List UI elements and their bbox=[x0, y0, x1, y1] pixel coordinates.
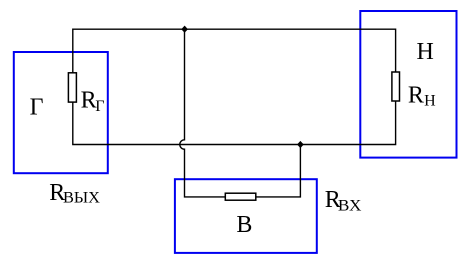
svg-text:Н: Н bbox=[417, 39, 434, 65]
svg-text:ВЫХ: ВЫХ bbox=[63, 190, 100, 207]
svg-text:Г: Г bbox=[30, 95, 44, 121]
svg-text:ВХ: ВХ bbox=[338, 197, 362, 214]
svg-text:Г: Г bbox=[95, 98, 104, 115]
svg-text:В: В bbox=[236, 212, 252, 238]
svg-text:Н: Н bbox=[424, 93, 436, 110]
svg-text:R: R bbox=[408, 82, 424, 108]
